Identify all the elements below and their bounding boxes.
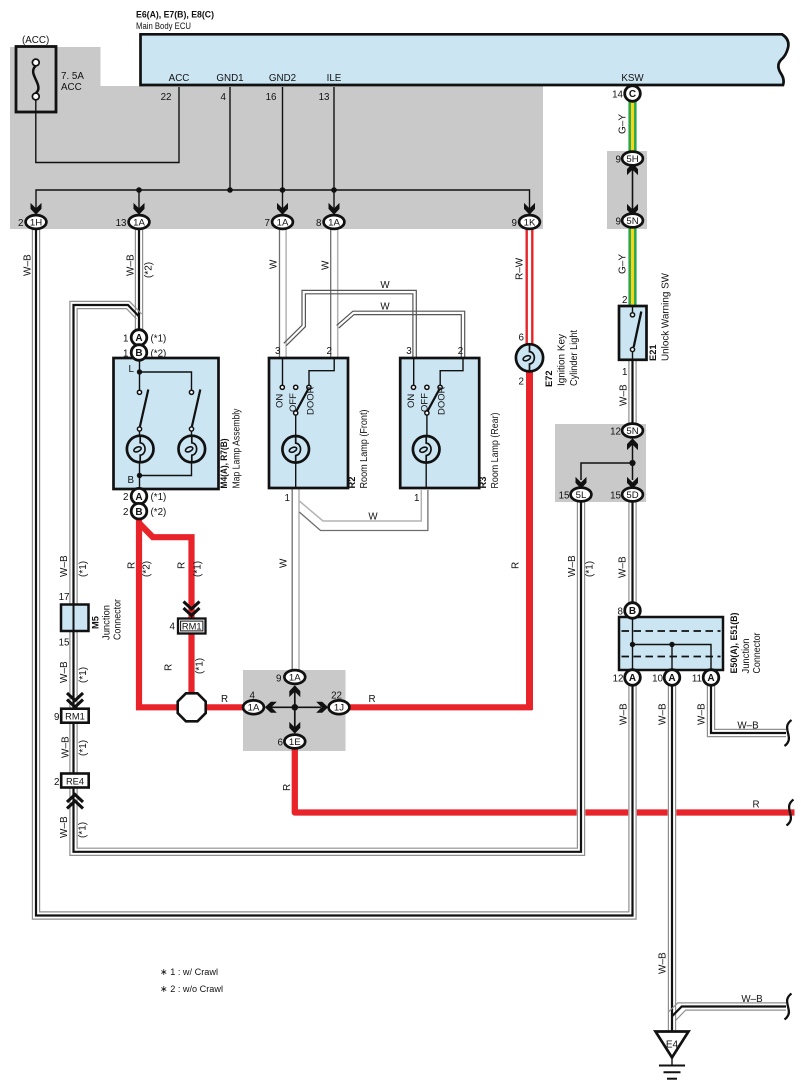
wire GND1 pin 4 drop xyxy=(229,87,231,190)
svg-text:R3: R3 xyxy=(478,477,488,489)
svg-text:5L: 5L xyxy=(576,490,587,501)
svg-text:8: 8 xyxy=(316,218,322,229)
break mark W-B A10 branch xyxy=(785,994,792,1020)
svg-text:2: 2 xyxy=(54,777,59,788)
svg-text:Map Lamp Assembly: Map Lamp Assembly xyxy=(232,408,243,488)
wire W-B E50 A10 to ground E4 xyxy=(675,685,677,1032)
room lamp rear R3 box bulb xyxy=(413,436,440,463)
arrow into connector 1A-7 xyxy=(277,203,288,215)
connector 1A pin4 xyxy=(243,700,264,714)
svg-text:W–B: W–B xyxy=(59,555,70,577)
svg-text:W–B: W–B xyxy=(59,816,70,838)
svg-text:W–B: W–B xyxy=(737,721,759,732)
svg-text:W–B: W–B xyxy=(619,703,630,725)
svg-text:5N: 5N xyxy=(626,216,638,227)
svg-text:L: L xyxy=(129,364,135,375)
arrow into connector 1H xyxy=(31,203,42,215)
svg-text:9: 9 xyxy=(54,712,59,723)
gray box junction 1A-1J-1E xyxy=(243,670,346,751)
wire ILE pin 13 drop xyxy=(333,87,335,213)
svg-text:1A: 1A xyxy=(277,217,289,228)
svg-text:E4: E4 xyxy=(666,1040,679,1051)
svg-text:KSW: KSW xyxy=(621,73,644,84)
wire W-B (*1) branch via M5/RM1/RE4 to 5L xyxy=(77,309,577,849)
svg-text:9: 9 xyxy=(616,217,621,228)
svg-text:W–B: W–B xyxy=(619,384,630,406)
wire 1A-13 drop xyxy=(138,190,140,213)
svg-text:4: 4 xyxy=(170,622,176,633)
svg-text:(*2): (*2) xyxy=(151,507,167,518)
svg-text:OFF: OFF xyxy=(419,393,430,412)
arrow chevrons out of RE4 (pointing up) xyxy=(67,795,83,803)
svg-text:ILE: ILE xyxy=(327,73,342,84)
svg-text:W–B: W–B xyxy=(618,556,629,578)
svg-text:W: W xyxy=(368,512,378,523)
gray box 5N-5L-5D xyxy=(555,424,646,502)
svg-text:G–Y: G–Y xyxy=(618,254,629,274)
svg-text:ACC: ACC xyxy=(169,73,190,84)
room lamp front R2 box xyxy=(269,358,348,488)
svg-text:1K: 1K xyxy=(524,217,536,228)
wire W-B branch to right break xyxy=(668,1003,786,1012)
svg-text:Ignition Key: Ignition Key xyxy=(557,334,568,386)
svg-text:A: A xyxy=(135,333,142,344)
connector 5N pin9 xyxy=(622,214,643,228)
svg-text:Main Body ECU: Main Body ECU xyxy=(136,21,191,32)
svg-text:(*2): (*2) xyxy=(144,262,155,278)
svg-text:3: 3 xyxy=(275,346,281,357)
connector 1K pin9 xyxy=(519,215,540,229)
svg-text:(*1): (*1) xyxy=(195,658,206,674)
svg-text:GND2: GND2 xyxy=(269,73,296,84)
svg-text:A: A xyxy=(135,492,142,503)
arrow into 5H xyxy=(627,163,638,175)
wire W-B 1H to E50 A12 xyxy=(40,229,629,912)
svg-text:8: 8 xyxy=(618,607,624,618)
svg-text:W–B: W–B xyxy=(741,994,763,1005)
map lamp connectors A/B top xyxy=(131,330,147,346)
wire W-B E50 A11 to right break xyxy=(715,685,786,730)
svg-text:B: B xyxy=(127,475,134,486)
svg-text:15: 15 xyxy=(610,491,621,502)
svg-text:G–Y: G–Y xyxy=(618,114,629,134)
junction dot bus/GND1 xyxy=(227,187,233,193)
arrow into 1E-6 xyxy=(289,722,300,734)
wire R-W 1K to E72 pin6 xyxy=(526,229,534,345)
svg-text:R: R xyxy=(511,562,522,569)
svg-text:Connector: Connector xyxy=(752,632,763,674)
junction RE4 xyxy=(61,774,88,788)
wire R map lamp B(*2) to octagon splice xyxy=(139,518,177,707)
svg-text:2: 2 xyxy=(519,377,524,388)
white underlays where W-B wires cross the red run xyxy=(577,780,586,851)
svg-text:GND1: GND1 xyxy=(216,73,243,84)
svg-text:Room Lamp (Rear): Room Lamp (Rear) xyxy=(490,413,501,489)
svg-text:∗ 1 : w/ Crawl: ∗ 1 : w/ Crawl xyxy=(160,967,218,978)
svg-text:A: A xyxy=(707,673,714,684)
svg-text:RE4: RE4 xyxy=(66,776,84,786)
svg-text:(ACC): (ACC) xyxy=(22,35,49,46)
svg-text:ACC: ACC xyxy=(61,82,82,93)
svg-text:W–B: W–B xyxy=(59,661,70,683)
svg-text:RM1: RM1 xyxy=(65,712,85,722)
arrow into connector 1K xyxy=(524,203,535,215)
svg-text:ON: ON xyxy=(275,394,286,408)
wire bus under ECU xyxy=(36,190,530,213)
svg-text:2: 2 xyxy=(18,218,23,229)
svg-text:7. 5A: 7. 5A xyxy=(61,71,84,82)
junction dot bus/ILE xyxy=(331,187,337,193)
svg-text:22: 22 xyxy=(161,92,172,103)
svg-text:2: 2 xyxy=(458,346,463,357)
svg-text:12: 12 xyxy=(610,427,621,438)
connector 1A pin8 xyxy=(324,215,345,229)
svg-text:W–B: W–B xyxy=(658,703,669,725)
svg-text:2: 2 xyxy=(123,507,128,518)
svg-text:W–B: W–B xyxy=(658,952,669,974)
wire W-B 1A-13 to map lamp A/B xyxy=(142,229,144,331)
wire G-Y 5N to E21 pin2 xyxy=(628,228,636,306)
svg-text:W–B: W–B xyxy=(567,555,578,577)
svg-text:9: 9 xyxy=(512,218,517,229)
svg-text:1A: 1A xyxy=(328,217,340,228)
connector 5L pin15 xyxy=(571,488,592,502)
junction RM1 (left column) xyxy=(61,709,88,723)
arrow chevrons into RM1 (left column) xyxy=(67,700,83,708)
arrow into 1J-22 xyxy=(316,702,328,713)
svg-text:17: 17 xyxy=(59,592,70,603)
svg-text:E72: E72 xyxy=(544,370,554,387)
map lamp connectors A/B bottom xyxy=(131,488,147,504)
svg-text:1: 1 xyxy=(123,349,128,360)
svg-text:Junction: Junction xyxy=(102,605,113,640)
svg-text:6: 6 xyxy=(519,333,525,344)
svg-text:Cylinder Light: Cylinder Light xyxy=(569,330,580,386)
svg-text:R: R xyxy=(368,694,375,705)
junction dot bus/1A-13 xyxy=(136,187,142,193)
svg-text:(*1): (*1) xyxy=(78,822,89,838)
svg-text:6: 6 xyxy=(278,738,284,749)
svg-text:5N: 5N xyxy=(626,426,638,437)
wire R riser to E72 pin2 xyxy=(526,371,533,710)
svg-text:2: 2 xyxy=(327,346,332,357)
svg-text:9: 9 xyxy=(276,674,281,685)
svg-text:C: C xyxy=(629,89,636,100)
svg-text:R: R xyxy=(221,694,228,705)
svg-text:3: 3 xyxy=(406,346,412,357)
svg-text:Unlock Warning SW: Unlock Warning SW xyxy=(661,272,672,361)
svg-text:Junction: Junction xyxy=(741,639,752,674)
E50 connectors A pins 12,10,11 xyxy=(625,670,641,686)
junction box arrows and cross xyxy=(294,686,296,728)
M5 junction connector box xyxy=(61,605,89,632)
wire W branch ILE to R3 pin2 xyxy=(337,311,465,358)
map lamp assembly M4(A), R7(B) box xyxy=(114,358,219,489)
wire R octagon to 1A-4 xyxy=(205,704,246,710)
svg-text:11: 11 xyxy=(692,674,702,685)
svg-text:B: B xyxy=(629,606,636,617)
connector 5D pin15 xyxy=(622,488,643,502)
arrow into 5L xyxy=(576,477,587,489)
arrow into 1A-4 xyxy=(265,702,277,713)
svg-text:W–B: W–B xyxy=(697,703,708,725)
gray harness region top-left xyxy=(10,47,101,87)
arrow into connector 1A-13 xyxy=(134,203,145,215)
svg-text:W–B: W–B xyxy=(23,254,34,276)
Main Body ECU E6(A), E7(B), E8(C) xyxy=(141,34,789,85)
room lamp front R2 box bulb xyxy=(282,436,309,463)
map lamp switch left xyxy=(137,390,141,394)
svg-text:DOOR: DOOR xyxy=(437,386,448,415)
wire W branch R2pin3 to R3 pin3 xyxy=(284,290,417,358)
gray harness main band xyxy=(10,86,543,229)
svg-text:1A: 1A xyxy=(133,217,145,228)
wire R 1J-22 to E72 riser xyxy=(349,704,533,710)
svg-text:4: 4 xyxy=(221,92,227,103)
junction dot bus/GND2 xyxy=(280,187,286,193)
arrow into 5N xyxy=(627,204,638,216)
wire W branch R2 pin1 to R3 pin1 xyxy=(299,490,421,521)
svg-text:5D: 5D xyxy=(626,490,638,501)
connector 1J pin22 xyxy=(329,700,350,714)
svg-text:Room Lamp (Front): Room Lamp (Front) xyxy=(359,410,370,489)
svg-text:16: 16 xyxy=(266,92,277,103)
arrow into 1A-9 xyxy=(289,685,300,697)
svg-text:14: 14 xyxy=(612,90,623,101)
E72 ignition key cylinder light bulb xyxy=(516,344,543,371)
ground E4 xyxy=(656,1032,689,1058)
E21 unlock warning switch box xyxy=(619,306,647,360)
svg-text:∗ 2 : w/o Crawl: ∗ 2 : w/o Crawl xyxy=(160,984,223,995)
svg-text:M5: M5 xyxy=(91,616,101,629)
svg-text:(*2): (*2) xyxy=(142,561,153,577)
svg-text:OFF: OFF xyxy=(288,393,299,412)
wire W 1A-8 to R2 pin2 xyxy=(337,229,339,358)
svg-text:1H: 1H xyxy=(30,217,42,228)
svg-text:13: 13 xyxy=(319,92,330,103)
svg-text:B: B xyxy=(135,348,142,359)
connector 1A pin7 xyxy=(272,215,293,229)
svg-text:10: 10 xyxy=(652,674,663,685)
svg-text:Connector: Connector xyxy=(113,598,124,640)
svg-text:(*1): (*1) xyxy=(585,561,596,577)
gray box 5H-5N xyxy=(607,151,647,229)
map lamp bulb right xyxy=(179,436,206,463)
wire GND2 pin 16 drop xyxy=(282,87,284,213)
svg-text:DOOR: DOOR xyxy=(305,386,316,415)
svg-text:R: R xyxy=(752,800,759,811)
svg-text:R: R xyxy=(282,784,293,791)
svg-text:(*2): (*2) xyxy=(151,349,167,360)
connector 1H pin2 xyxy=(26,215,47,229)
break mark W-B A11 xyxy=(785,720,792,746)
svg-text:15: 15 xyxy=(559,491,570,502)
svg-text:R2: R2 xyxy=(347,477,357,489)
svg-text:1: 1 xyxy=(123,334,128,345)
wire W 1A-7 to R2 pin3 xyxy=(285,229,287,358)
E50 connector B pin8 xyxy=(625,603,641,619)
junction RM1-4 xyxy=(178,619,206,634)
arrow into connector 1A-8 xyxy=(329,203,340,215)
svg-text:12: 12 xyxy=(613,674,624,685)
svg-text:(*1): (*1) xyxy=(78,667,89,683)
svg-text:2: 2 xyxy=(123,492,128,503)
svg-text:4: 4 xyxy=(250,691,256,702)
svg-text:(*1): (*1) xyxy=(78,740,89,756)
wire G-Y KSW C to 5H xyxy=(628,101,636,153)
svg-text:E50(A), E51(B): E50(A), E51(B) xyxy=(729,613,740,674)
svg-text:(*1): (*1) xyxy=(193,561,204,577)
svg-text:W: W xyxy=(321,260,332,270)
svg-text:A: A xyxy=(629,673,636,684)
svg-text:W: W xyxy=(269,259,280,269)
svg-text:W: W xyxy=(279,558,290,568)
svg-text:B: B xyxy=(135,507,142,518)
svg-text:1: 1 xyxy=(414,493,419,504)
svg-text:R: R xyxy=(177,562,188,569)
connector C pin14 KSW xyxy=(625,86,641,102)
svg-text:13: 13 xyxy=(116,218,127,229)
map lamp bulb left xyxy=(127,436,154,463)
svg-text:W: W xyxy=(380,280,390,291)
svg-text:A: A xyxy=(668,673,675,684)
svg-text:9: 9 xyxy=(616,155,621,166)
svg-text:R: R xyxy=(127,562,138,569)
svg-text:(*1): (*1) xyxy=(151,492,167,503)
wire fuse to ACC pin 22 xyxy=(36,87,179,163)
wire R map lamp A(*1) to RM1-4 xyxy=(139,523,192,694)
svg-text:W–B: W–B xyxy=(126,254,137,276)
svg-text:ON: ON xyxy=(406,394,417,408)
arrow chevrons into RM1-4 xyxy=(184,608,200,616)
svg-text:2: 2 xyxy=(622,295,627,306)
wire link 5H to 5N xyxy=(632,166,634,213)
svg-text:R–W: R–W xyxy=(515,257,526,280)
svg-text:E6(A), E7(B), E8(C): E6(A), E7(B), E8(C) xyxy=(136,10,214,21)
svg-text:22: 22 xyxy=(331,691,342,702)
room lamp rear R3 box xyxy=(400,358,479,488)
svg-text:RM1: RM1 xyxy=(182,622,202,632)
wire W-B E21 to 5N-12 xyxy=(635,360,637,424)
svg-text:1E: 1E xyxy=(289,737,301,748)
connector 1A pin13 xyxy=(129,215,150,229)
arrow into 5D xyxy=(627,477,638,489)
svg-text:15: 15 xyxy=(59,638,70,649)
svg-text:1: 1 xyxy=(622,367,627,378)
svg-text:7: 7 xyxy=(265,218,270,229)
svg-text:M4(A), R7(B): M4(A), R7(B) xyxy=(219,439,230,489)
svg-text:5H: 5H xyxy=(626,154,638,165)
connector 1A pin9 xyxy=(284,670,305,684)
svg-text:1J: 1J xyxy=(334,703,344,714)
arrow into 5N-12 xyxy=(627,438,638,450)
svg-text:1A: 1A xyxy=(248,703,260,714)
wire R 1E-6 to right break xyxy=(295,749,795,813)
svg-text:W: W xyxy=(380,302,390,313)
map lamp switch right xyxy=(189,390,193,394)
svg-text:1: 1 xyxy=(285,493,290,504)
svg-text:1A: 1A xyxy=(289,672,301,683)
svg-text:R: R xyxy=(164,664,175,671)
octagon splice xyxy=(178,693,206,721)
svg-text:W–B: W–B xyxy=(61,736,72,758)
fuse 7.5A ACC xyxy=(16,47,56,113)
connector 1E pin6 xyxy=(284,735,305,749)
E50(A), E51(B) junction connector box xyxy=(619,617,723,670)
wire W R2 pin1 to junction 1A-9 xyxy=(298,489,300,670)
break mark R xyxy=(787,800,794,826)
svg-text:(*1): (*1) xyxy=(151,334,167,345)
svg-text:(*1): (*1) xyxy=(78,561,89,577)
svg-text:E21: E21 xyxy=(648,344,658,361)
wire W-B 5D to E50 B8 xyxy=(635,502,637,605)
